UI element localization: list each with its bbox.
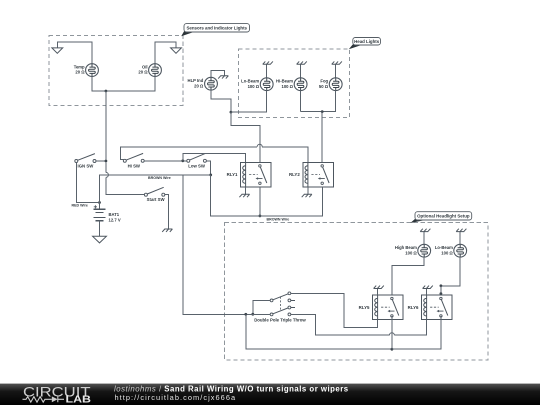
- svg-text:Double Pole Triple Throw: Double Pole Triple Throw: [254, 317, 306, 322]
- junction: RLY6 switch feed corner: [440, 284, 443, 287]
- chassis (Fog): [332, 61, 342, 64]
- junction: Low SW left tap: [181, 159, 184, 162]
- wire: DPTT bottom throw run: [291, 314, 390, 335]
- wire: Lo-Beam2 bottom to RLY6 node: [441, 257, 460, 286]
- wire hop over BROWN wire: [106, 172, 109, 177]
- svg-text:100 Ω: 100 Ω: [281, 84, 293, 89]
- junction: BROWN x Low SW drop: [209, 174, 212, 177]
- lamp Hi-Beam 100 &#937;: [294, 78, 307, 91]
- svg-text:12.7 V: 12.7 V: [109, 217, 121, 222]
- junction: sensor lamps common: [105, 90, 108, 93]
- wire: RLY6 coil top to chassis: [426, 289, 428, 296]
- wire: High Beam bottom to RLY5 switch: [392, 257, 424, 297]
- lamp Temp 20 ohm: [86, 64, 99, 77]
- wire: commons bus down to relay switch bus: [246, 314, 392, 349]
- chassis CH4 (RLY2 coil): [302, 194, 312, 197]
- wire: node A down to RLY1 switch: [231, 112, 260, 165]
- wire: RLY1 switch bottom down: [259, 187, 261, 216]
- svg-text:100 Ω: 100 Ω: [248, 84, 260, 89]
- svg-text:RED Wire: RED Wire: [72, 204, 88, 208]
- relay RLY6: [422, 295, 453, 319]
- svg-text:Low SW: Low SW: [188, 163, 206, 168]
- wire: Hi SW to Low SW: [144, 160, 187, 162]
- svg-text:20 Ω: 20 Ω: [194, 83, 204, 88]
- svg-text:BAT1: BAT1: [109, 212, 120, 217]
- wire BROWN bus: Low SW drop to RLY2 switch: [211, 175, 323, 216]
- wire: Hi-Beam top to chassis: [300, 64, 302, 78]
- wire: Oil bottom to junction: [106, 77, 155, 92]
- wire: DPTT top throw to RLY5 coil: [291, 293, 378, 327]
- wire: relay switch bus to RLY6 switch: [392, 316, 441, 349]
- wire: vertical to Start SW: [106, 177, 144, 194]
- chassis (Hi-Beam): [297, 61, 307, 64]
- wire: RLY2 coil to chassis: [307, 187, 309, 195]
- wire: HLP Ind bottom to node A: [211, 90, 231, 112]
- wire: node down to RLY6 switch: [440, 286, 442, 297]
- group box: Head Lights: [239, 49, 350, 118]
- wire: vertical above BROWN hop: [105, 162, 107, 172]
- wire: RLY5 coil top to chassis: [377, 289, 379, 296]
- label Hi-Beam 100 &#937;: [276, 79, 294, 89]
- svg-text:RLY1: RLY1: [227, 172, 238, 177]
- svg-text:BROWN Wire: BROWN Wire: [148, 176, 171, 180]
- svg-text:100 Ω: 100 Ω: [405, 250, 417, 255]
- wire: battery bottom to ground: [99, 221, 101, 237]
- wire: Hi-Beam bottom to junction B: [300, 91, 302, 112]
- svg-text:Start SW: Start SW: [147, 197, 166, 202]
- svg-text:LAB: LAB: [66, 395, 92, 405]
- wire: Low SW right down to BROWN: [206, 161, 210, 175]
- wire: node B down to RLY2 switch: [321, 112, 323, 165]
- junction: RLY1 out on BROWN bus: [259, 215, 262, 218]
- label Fog 50 &#937;: [319, 79, 329, 89]
- chassis CH5 (RLY5 coil): [374, 286, 384, 289]
- switch IGN SW: [75, 154, 96, 169]
- wire hop over RLY5 switch drop: [389, 333, 394, 336]
- wire: HLP Ind top to chassis: [211, 71, 224, 78]
- wire BROWN: battery node up and right: [100, 175, 211, 203]
- junction: IGN node: [105, 160, 108, 163]
- chassis (Lo-Beam optional): [456, 229, 466, 232]
- chassis (Lo-Beam): [263, 61, 273, 64]
- group label: Optional Headlight Setup: [410, 212, 471, 223]
- label High Beam 100 ohm: [395, 245, 418, 255]
- junction: commons bus drop: [244, 313, 247, 316]
- wire: Start SW to chassis: [165, 195, 169, 229]
- svg-text:RLY6: RLY6: [408, 305, 419, 310]
- svg-text:Head Lights: Head Lights: [354, 39, 380, 44]
- switch Hi SW: [123, 153, 144, 168]
- switch Double Pole Triple Throw: [270, 292, 295, 316]
- wire: Oil lamp top to ground flag: [155, 42, 176, 64]
- wire: Lo-Beam top to chassis: [266, 64, 268, 78]
- wire: Fog top to chassis: [335, 64, 337, 78]
- svg-text:50 Ω: 50 Ω: [319, 84, 329, 89]
- label HLP Ind 20 ohm: [188, 78, 204, 88]
- wire: tap up and over to RLY1 coil: [183, 153, 246, 162]
- junction node A (lamp bus): [230, 111, 233, 114]
- svg-text:100 Ω: 100 Ω: [441, 250, 453, 255]
- svg-text:RLY2: RLY2: [289, 172, 300, 177]
- wire: High Beam top to chassis: [423, 232, 425, 245]
- wire: IGN SW to center node: [96, 160, 105, 162]
- wire: DPTT upper common left drop: [253, 300, 270, 314]
- ground G3 (battery): [93, 236, 107, 243]
- ground G1 (Temp): [52, 48, 63, 53]
- chassis CH2 (Start SW): [162, 229, 172, 232]
- wire: RLY5 switch bottom down: [391, 316, 393, 349]
- wire: sensors junction down to IGN node: [105, 91, 107, 161]
- svg-text:RLY5: RLY5: [359, 305, 370, 310]
- lamp HLP Ind 20 ohm: [205, 77, 218, 90]
- chassis CH3 (RLY1 coil): [239, 194, 249, 197]
- chassis CH6 (RLY6 coil): [423, 286, 433, 289]
- junction: RLY5 switch out: [391, 348, 394, 351]
- lamp High Beam 100 ohm: [418, 244, 431, 257]
- wire: Lo-Beam2 top to chassis: [459, 232, 461, 245]
- ground G2 (Oil): [171, 48, 182, 53]
- svg-text:http://circuitlab.com/cjx666a: http://circuitlab.com/cjx666a: [115, 393, 237, 402]
- svg-text:Sensors and Indicator Lights: Sensors and Indicator Lights: [186, 26, 247, 31]
- battery BAT1 plates: [94, 209, 106, 220]
- battery BAT1 plus sign: [94, 205, 97, 208]
- wire: Temp lamp top to ground flag: [57, 42, 92, 64]
- lamp Fog 50 &#937;: [329, 78, 342, 91]
- lamp Lo-Beam 100 ohm (optional): [454, 244, 467, 257]
- svg-text:IGN SW: IGN SW: [78, 163, 95, 168]
- wire: Temp bottom to junction: [92, 77, 106, 92]
- group label: Sensors and Indicator Lights: [181, 24, 249, 37]
- junction: DPTT commons tie: [251, 313, 254, 316]
- group label: Head Lights: [349, 38, 381, 50]
- svg-text:20 Ω: 20 Ω: [75, 70, 85, 75]
- wire: battery node to plates: [99, 203, 101, 210]
- svg-text:Optional Headlight Setup: Optional Headlight Setup: [417, 214, 470, 219]
- label Lo-Beam 100 &#937;: [241, 79, 260, 89]
- switch Low SW: [187, 153, 207, 168]
- junction node B (hi-beam/fog): [321, 110, 324, 113]
- wire: node A to Lo-Beam bottom: [231, 91, 267, 113]
- label Lo-Beam 100 ohm (optional): [435, 245, 454, 255]
- wire: commons bus to Low SW riser: [183, 175, 270, 315]
- wire hop over RLY1 switch riser: [257, 144, 262, 147]
- svg-text:Hi SW: Hi SW: [128, 163, 141, 168]
- wire: RLY2 coil feed: [262, 147, 308, 163]
- relay RLY2: [303, 162, 334, 186]
- wire: bottom throw run to RLY6 coil: [394, 319, 426, 335]
- group box: Sensors and Indicator Lights: [49, 36, 183, 106]
- junction: RLY6 switch pin: [440, 292, 443, 295]
- footer bar with CircuitLab logo and title: [0, 384, 540, 405]
- wire: Fog bottom to junction B: [301, 91, 336, 112]
- label Temp 20 ohm: [74, 65, 85, 75]
- group box: Optional Headlight Setup: [225, 223, 488, 360]
- switch Start SW: [144, 187, 165, 202]
- wire: IGN SW left down (RED wire): [76, 163, 98, 203]
- label BAT1 12.7 V: [109, 212, 121, 222]
- chassis CH1 (HLP Ind): [218, 76, 228, 79]
- chassis (High Beam): [420, 229, 430, 232]
- svg-text:20 Ω: 20 Ω: [138, 70, 148, 75]
- svg-text:BROWN Wire: BROWN Wire: [267, 218, 290, 222]
- relay RLY1: [241, 162, 272, 186]
- wire: Hi SW left up to RLY2 coil run: [121, 147, 258, 160]
- lamp Oil 20 ohm: [149, 64, 162, 77]
- label Oil 20 ohm: [138, 65, 148, 75]
- relay RLY5: [373, 295, 404, 319]
- wire: RLY1 coil to chassis: [245, 187, 247, 195]
- junction: battery top node: [98, 201, 101, 204]
- lamp Lo-Beam 100 &#937;: [260, 78, 273, 91]
